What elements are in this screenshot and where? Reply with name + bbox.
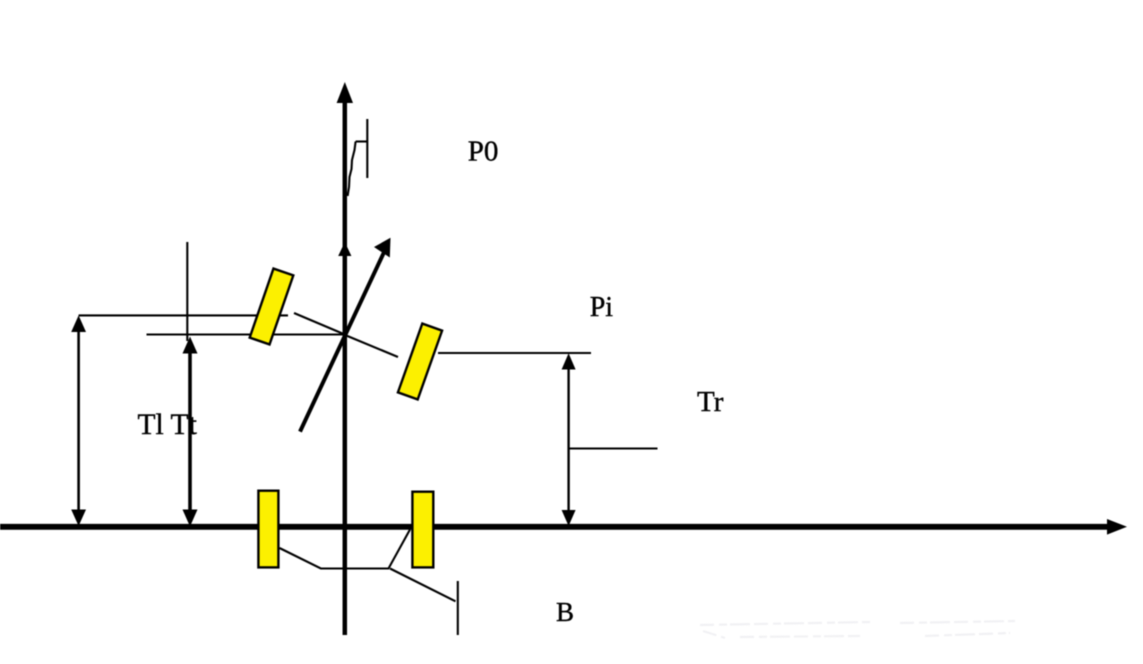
svg-text:P0: P0	[468, 136, 499, 168]
svg-text:Tr: Tr	[697, 386, 724, 418]
svg-text:B: B	[556, 597, 574, 627]
svg-text:Pi: Pi	[590, 292, 614, 323]
svg-text:Tl Tt: Tl Tt	[138, 409, 198, 441]
